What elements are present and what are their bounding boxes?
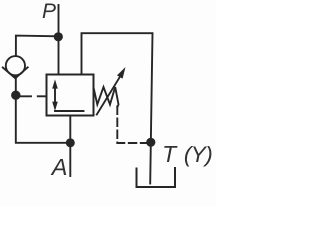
svg-text:A: A [50,154,68,180]
svg-text:P: P [42,0,56,23]
svg-text:(Y): (Y) [184,142,212,167]
svg-text:T: T [162,141,178,167]
